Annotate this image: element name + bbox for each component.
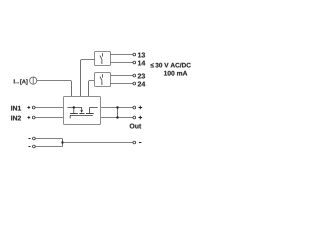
terminal minus supply 1 — [33, 137, 36, 140]
wire IN1 — [35, 107, 63, 109]
wire minus supply 1 — [35, 138, 62, 140]
polarity minus out — [139, 142, 141, 144]
terminal IN1 — [32, 106, 35, 109]
node junction dot minus — [61, 141, 63, 143]
label 14 — [138, 61, 145, 66]
mosfet channel dashes — [70, 113, 94, 115]
terminal 13 — [133, 53, 136, 56]
label IN2 — [11, 116, 21, 121]
terminal minus supply 2 — [33, 145, 36, 148]
wire output plus 1 — [101, 107, 133, 109]
label dots — [15, 82, 16, 83]
current source B1 — [30, 77, 37, 84]
wire to terminal 23 — [111, 75, 134, 77]
wire to terminal 13 — [111, 54, 134, 56]
converter box U1 — [64, 97, 101, 125]
wire minus bridge — [62, 139, 64, 147]
node junction dot bridge top — [116, 106, 118, 108]
label Out — [130, 124, 142, 129]
wire current source to converter — [37, 81, 72, 97]
label 13 — [138, 53, 145, 58]
mosfet Q1 drain tap — [73, 108, 75, 114]
wire output plus 2 — [101, 117, 133, 119]
mosfet Q1 drain line — [67, 108, 81, 111]
terminal 23 — [133, 74, 136, 77]
wire converter to contact K1 — [81, 60, 95, 97]
terminal output plus 2 — [133, 116, 136, 119]
label I — [13, 79, 16, 83]
terminal output plus 1 — [133, 106, 136, 109]
wire converter to contact K2 — [89, 81, 95, 97]
mosfet gate line — [70, 115, 93, 118]
rating label lte sign — [151, 63, 154, 67]
terminal output minus — [133, 141, 136, 144]
polarity plus out 1 — [139, 106, 143, 110]
relay contact K2 box — [95, 73, 111, 87]
relay contact K1 box — [95, 52, 111, 66]
polarity minus supply 2 — [28, 146, 30, 148]
wire minus to output — [63, 142, 134, 144]
terminal 14 — [133, 61, 136, 64]
wire minus supply 2 — [35, 146, 62, 148]
contact K2 switch symbol — [100, 74, 103, 85]
wire IN2 — [35, 117, 63, 119]
contact K1 switch symbol — [100, 53, 103, 64]
label IN1 — [11, 106, 21, 111]
polarity plus IN2 — [28, 116, 31, 119]
wire to terminal 24 — [111, 83, 134, 85]
rating label 30V — [155, 63, 190, 68]
rating label 100mA — [164, 71, 187, 76]
terminal IN2 — [32, 116, 35, 119]
wire to terminal 14 — [111, 62, 134, 64]
polarity minus supply 1 — [28, 138, 30, 140]
polarity plus IN1 — [28, 106, 31, 109]
node junction dot Q1 — [73, 106, 75, 108]
wire output bridge — [117, 108, 119, 118]
polarity plus out 2 — [139, 116, 143, 120]
label 23 — [138, 74, 145, 79]
label unit A — [20, 79, 27, 84]
node junction dot bridge bottom — [116, 116, 118, 118]
label 24 — [138, 82, 146, 87]
terminal 24 — [133, 82, 136, 85]
mosfet Q2 drain line — [90, 108, 98, 114]
mosfet Q1 source arrow — [80, 110, 83, 113]
